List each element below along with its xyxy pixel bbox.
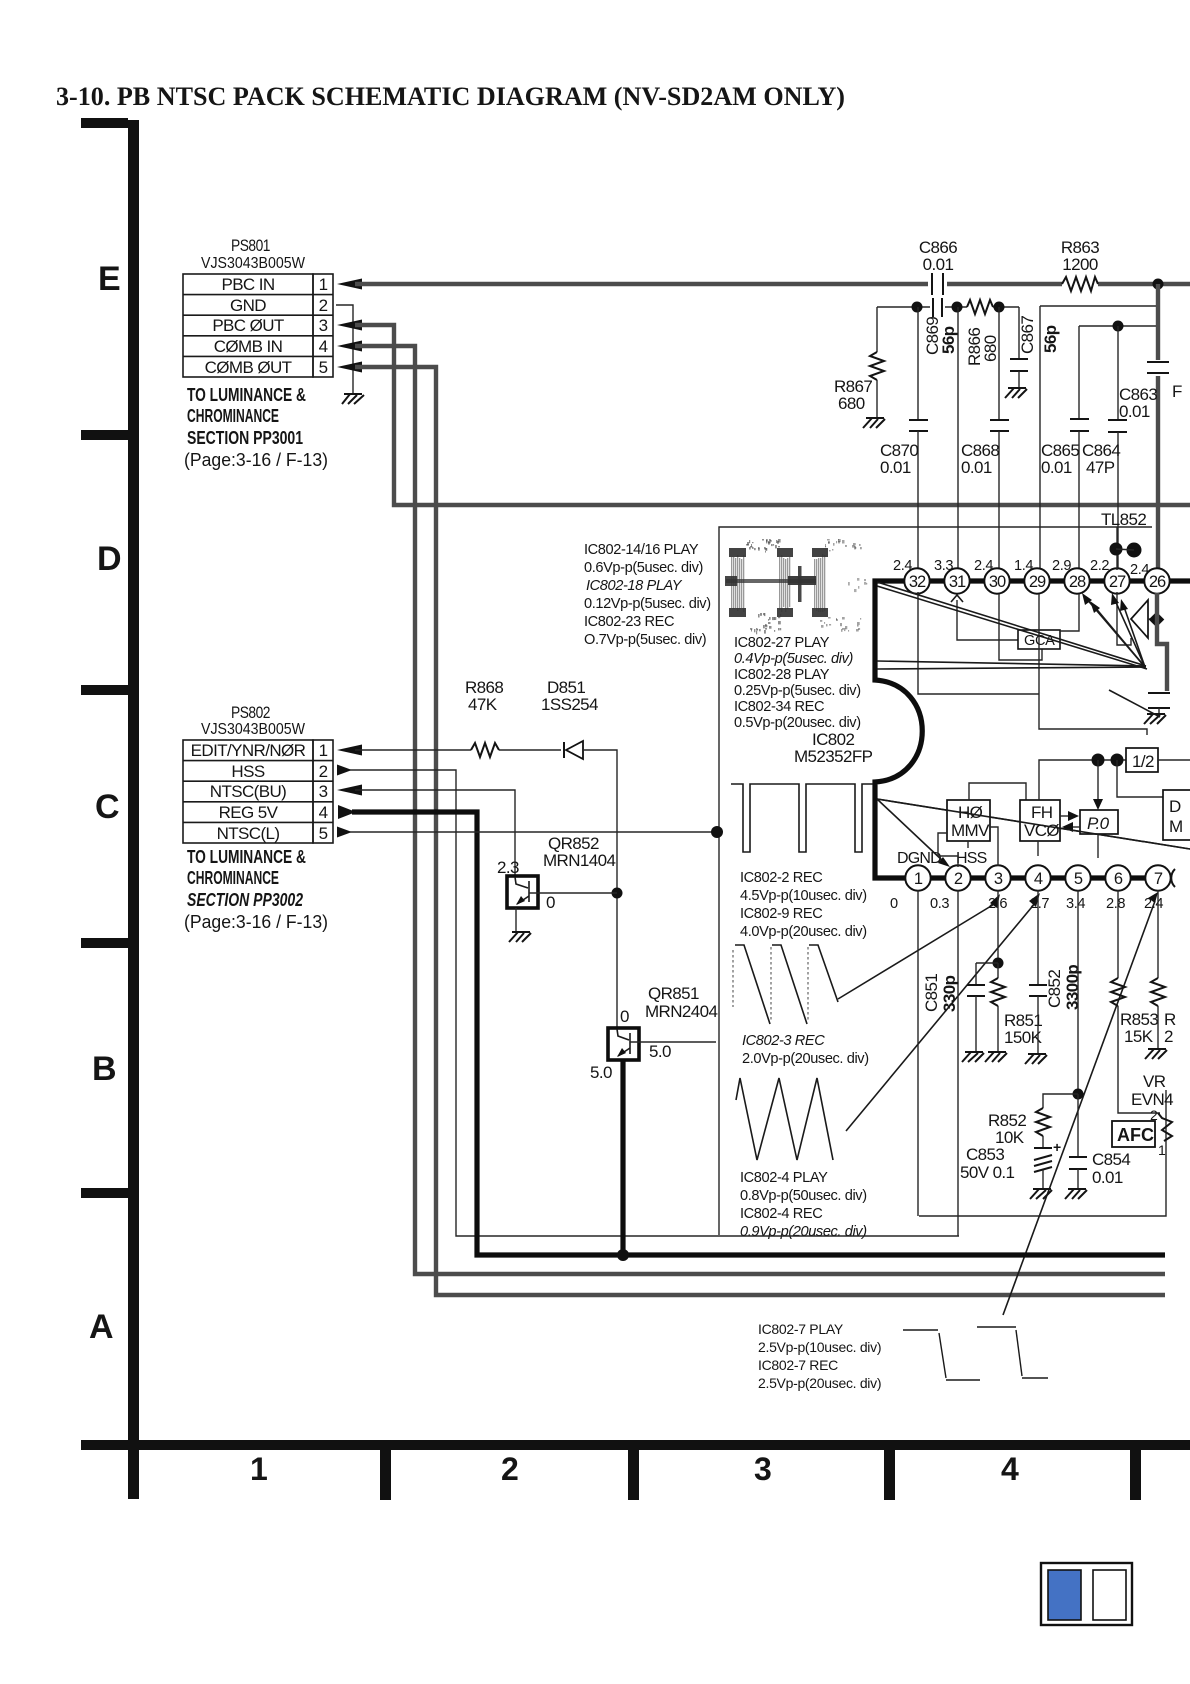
svg-text:5: 5 xyxy=(1074,870,1083,888)
callout line to pin 7 xyxy=(1003,901,1155,1315)
wire NTSC(BU) (PS802-3) xyxy=(337,785,362,796)
svg-text:PBC ØUT: PBC ØUT xyxy=(212,316,284,335)
buffer amp (pin 26/27) xyxy=(1117,592,1157,645)
wire DGND (pin 1 down) xyxy=(917,890,919,1216)
svg-text:0.01: 0.01 xyxy=(880,458,911,477)
pin 32 xyxy=(904,568,929,593)
svg-text:0.5Vp-p(20usec. div): 0.5Vp-p(20usec. div) xyxy=(734,715,861,731)
capacitor (pin 26 bypass) xyxy=(1148,693,1170,716)
svg-text:E: E xyxy=(98,260,121,298)
svg-text:2: 2 xyxy=(319,762,328,781)
svg-text:(Page:3-16 / F-13): (Page:3-16 / F-13) xyxy=(184,912,328,932)
svg-text:5.0: 5.0 xyxy=(590,1063,612,1082)
top pin voltage values xyxy=(893,558,1149,578)
wire HSS (PS802-2) xyxy=(337,765,352,776)
svg-text:2.5Vp-p(20usec. div): 2.5Vp-p(20usec. div) xyxy=(758,1375,881,1391)
svg-text:29: 29 xyxy=(1029,573,1046,591)
capacitor C870 xyxy=(880,307,928,570)
pin 29 xyxy=(1024,568,1049,593)
capacitor C865 xyxy=(1041,326,1089,570)
svg-text:4: 4 xyxy=(1034,870,1043,888)
svg-text:4.0Vp-p(20usec. div): 4.0Vp-p(20usec. div) xyxy=(740,924,867,940)
svg-text:HSS: HSS xyxy=(231,762,264,781)
svg-text:1: 1 xyxy=(319,741,328,760)
svg-text:680: 680 xyxy=(981,335,1000,362)
scope photo (burst waveform bitmap) xyxy=(725,539,867,634)
svg-text:0: 0 xyxy=(620,1007,629,1026)
svg-text:IC802-28 PLAY: IC802-28 PLAY xyxy=(734,667,830,683)
svg-text:0: 0 xyxy=(546,893,555,912)
svg-text:32: 32 xyxy=(909,573,926,591)
svg-text:0.01: 0.01 xyxy=(961,458,992,477)
svg-text:2: 2 xyxy=(501,1451,519,1487)
junction (pin 26 rail) xyxy=(1149,612,1165,628)
svg-text:C852: C852 xyxy=(1045,970,1064,1008)
diode D851 1SS254 xyxy=(541,678,598,759)
svg-text:VJS3043B005W: VJS3043B005W xyxy=(201,721,305,738)
svg-text:0.25Vp-p(5usec. div): 0.25Vp-p(5usec. div) xyxy=(734,683,861,699)
bottom pin voltage values xyxy=(890,896,1163,912)
pin 28 xyxy=(1064,568,1089,593)
ground (C867) xyxy=(1005,388,1027,398)
arrow from notch to pin 2 xyxy=(877,799,950,867)
pin 2 xyxy=(945,865,970,890)
ground (C852) xyxy=(1025,1054,1047,1064)
svg-text:2.4: 2.4 xyxy=(974,558,993,574)
svg-text:0.12Vp-p(5usec. div): 0.12Vp-p(5usec. div) xyxy=(584,596,711,612)
pin 30 xyxy=(984,568,1009,593)
svg-text:47P: 47P xyxy=(1086,458,1115,477)
ground (R867) xyxy=(863,418,885,428)
box P.0 (phase det) xyxy=(1060,810,1118,834)
capacitor C867 (56p to gnd) xyxy=(1010,307,1060,389)
note: to luminance & chrominance section PP3001 xyxy=(184,385,328,470)
pin 3 xyxy=(985,865,1010,890)
svg-text:O.7Vp-p(5usec. div): O.7Vp-p(5usec. div) xyxy=(584,632,706,648)
svg-text:1: 1 xyxy=(250,1451,268,1487)
IC802 top pin row xyxy=(904,568,1169,593)
node line (y=326 C865/C864) xyxy=(1079,325,1158,327)
capacitor C851 330p xyxy=(922,963,985,1053)
junction dots on filter net xyxy=(912,302,923,313)
svg-text:HSS: HSS xyxy=(956,850,987,867)
svg-text:6: 6 xyxy=(1114,870,1123,888)
wire pin 4 down / capacitor C852 3300p xyxy=(1029,890,1082,1055)
svg-text:GND: GND xyxy=(230,296,266,315)
leader line over MMV/VCO boxes (notch to pin 9) xyxy=(877,799,1190,849)
border: left margin bar with ticks xyxy=(81,118,139,1450)
wire pin31 riser xyxy=(957,307,959,570)
box DL (cut at page edge) xyxy=(1163,790,1190,840)
svg-text:EDIT/YNR/NØR: EDIT/YNR/NØR xyxy=(191,741,306,760)
svg-text:2.8: 2.8 xyxy=(1106,896,1125,912)
ground (C853) xyxy=(1030,1189,1052,1199)
svg-text:3.3: 3.3 xyxy=(934,558,953,574)
svg-text:PS802: PS802 xyxy=(231,703,270,722)
svg-text:0.9Vp-p(20usec. div): 0.9Vp-p(20usec. div) xyxy=(740,1224,867,1240)
pin 27 xyxy=(1104,568,1129,593)
svg-text:0.4Vp-p(5usec. div): 0.4Vp-p(5usec. div) xyxy=(734,651,853,667)
capacitor C853 50V 0.1 (polarized) xyxy=(960,1139,1061,1190)
svg-text:5.0: 5.0 xyxy=(649,1042,671,1061)
waveform: square wave (pin 7) xyxy=(903,1327,1048,1380)
label IC802-14/16 block xyxy=(584,542,711,648)
svg-text:TO LUMINANCE &: TO LUMINANCE & xyxy=(187,847,306,867)
svg-text:4: 4 xyxy=(319,803,328,822)
svg-text:SECTION PP3001: SECTION PP3001 xyxy=(187,428,303,448)
svg-text:2: 2 xyxy=(954,870,963,888)
svg-text:IC802-27 PLAY: IC802-27 PLAY xyxy=(734,635,830,651)
svg-text:2.2: 2.2 xyxy=(1090,558,1109,574)
ground (C854) xyxy=(1065,1189,1087,1199)
svg-text:0.6Vp-p(5usec. div): 0.6Vp-p(5usec. div) xyxy=(584,560,703,576)
svg-text:2: 2 xyxy=(1164,1027,1173,1046)
svg-text:5: 5 xyxy=(319,824,328,843)
svg-text:1: 1 xyxy=(914,870,923,888)
pin 1 xyxy=(905,865,930,890)
svg-text:IC802-2 REC: IC802-2 REC xyxy=(740,870,822,886)
svg-text:QR851: QR851 xyxy=(648,984,699,1003)
svg-text:5: 5 xyxy=(319,358,328,377)
svg-text:150K: 150K xyxy=(1004,1028,1043,1047)
svg-text:VR: VR xyxy=(1143,1072,1166,1091)
capacitor C863 (series) xyxy=(1119,362,1169,421)
svg-text:1/2: 1/2 xyxy=(1132,752,1154,771)
svg-text:2.4: 2.4 xyxy=(893,558,912,574)
label IC802-27/28/34 block xyxy=(734,635,861,731)
transistor QR851 MRN2404 xyxy=(590,984,717,1255)
svg-text:0.01: 0.01 xyxy=(1041,458,1072,477)
label IC802-3 block xyxy=(742,1033,869,1067)
resistor R851 150K xyxy=(991,963,1043,1053)
junction dot (QR852 emitter node) xyxy=(612,888,623,899)
svg-text:NTSC(BU): NTSC(BU) xyxy=(210,782,286,801)
svg-text:0.3: 0.3 xyxy=(930,896,949,912)
wire stubs below MMV / VCO / P.0 xyxy=(968,834,1098,858)
svg-text:MRN1404: MRN1404 xyxy=(543,851,615,870)
bus riser (grey) with C863 xyxy=(1156,284,1160,360)
svg-text:IC802-18 PLAY: IC802-18 PLAY xyxy=(586,578,683,594)
wire pin 5 down xyxy=(1077,890,1079,1094)
wire COMB OUT (PS801-5) xyxy=(337,362,362,373)
svg-text:1: 1 xyxy=(319,275,328,294)
pin 7 xyxy=(1145,865,1170,890)
svg-text:7: 7 xyxy=(1154,870,1163,888)
wire PBC OUT (PS801-3) xyxy=(337,320,362,331)
box GCA xyxy=(918,592,1147,735)
svg-text:3: 3 xyxy=(754,1451,772,1487)
transistor QR852 MRN1404 xyxy=(497,834,617,933)
svg-text:2: 2 xyxy=(319,296,328,315)
connector PS801 xyxy=(183,236,333,377)
svg-text:0.8Vp-p(50usec. div): 0.8Vp-p(50usec. div) xyxy=(740,1188,867,1204)
wire GND (PS801-2) to ground xyxy=(336,305,353,394)
pin 6 xyxy=(1105,865,1130,890)
svg-text:CØMB IN: CØMB IN xyxy=(214,337,283,356)
svg-text:15K: 15K xyxy=(1124,1027,1154,1046)
svg-text:1SS254: 1SS254 xyxy=(541,695,598,714)
wire PBC IN (PS801-1) xyxy=(337,279,362,290)
pin 4 xyxy=(1025,865,1050,890)
svg-text:2.3: 2.3 xyxy=(497,858,519,877)
box HO MMV xyxy=(938,783,1026,867)
wire REG 5V (PS802-4, +B) xyxy=(338,805,356,819)
svg-text:2.5Vp-p(10usec. div): 2.5Vp-p(10usec. div) xyxy=(758,1339,881,1355)
svg-text:0.01: 0.01 xyxy=(1119,402,1150,421)
ground (pin 26 bypass) xyxy=(1144,714,1166,724)
svg-text:SECTION PP3002: SECTION PP3002 xyxy=(187,890,303,910)
box FH VCO xyxy=(1020,800,1060,841)
module TL852 boundary xyxy=(719,527,1166,1235)
svg-text:30: 30 xyxy=(989,573,1006,591)
svg-text:1: 1 xyxy=(1158,1142,1166,1158)
svg-text:2.9: 2.9 xyxy=(1052,558,1071,574)
wire COMB IN (PS801-4) xyxy=(337,341,362,352)
capacitor C868 xyxy=(961,307,1009,570)
revision marker squares xyxy=(1041,1563,1132,1625)
svg-text:+: + xyxy=(1053,1139,1061,1155)
svg-text:REG 5V: REG 5V xyxy=(219,803,279,822)
svg-text:31: 31 xyxy=(949,573,966,591)
resistor R866 (series 680) xyxy=(965,300,1000,366)
junction dot at R863 / vertical bus xyxy=(1153,279,1164,290)
svg-text:CØMB ØUT: CØMB ØUT xyxy=(205,358,292,377)
junction dot (QR851 to +B rail) xyxy=(617,1249,629,1261)
IC802 M52352FP outline xyxy=(875,581,1190,878)
svg-text:F: F xyxy=(1172,382,1182,401)
svg-text:D: D xyxy=(1169,797,1181,816)
svg-text:M52352FP: M52352FP xyxy=(794,747,873,766)
resistor R852 10K xyxy=(988,1094,1078,1148)
svg-text:CHROMINANCE: CHROMINANCE xyxy=(187,406,279,426)
ground (QR852) xyxy=(509,932,531,942)
svg-text:CHROMINANCE: CHROMINANCE xyxy=(187,868,279,888)
svg-text:3: 3 xyxy=(319,316,328,335)
capacitor C854 0.01 xyxy=(1069,1094,1130,1190)
label IC802-2/9 block xyxy=(740,870,867,940)
svg-text:IC802-14/16 PLAY: IC802-14/16 PLAY xyxy=(584,542,699,558)
wire pin29 riser xyxy=(1039,306,1041,570)
svg-text:1200: 1200 xyxy=(1062,255,1098,274)
waveform: triangle (pin 4) xyxy=(736,1078,833,1160)
svg-text:27: 27 xyxy=(1109,573,1126,591)
callout line to pin 3 xyxy=(838,903,996,999)
svg-text:IC802-34 REC: IC802-34 REC xyxy=(734,699,824,715)
svg-text:IC802-7 REC: IC802-7 REC xyxy=(758,1357,838,1373)
box AFC xyxy=(1112,1121,1155,1147)
svg-text:PBC IN: PBC IN xyxy=(221,275,274,294)
node dots below TL852 (pins 26/27 net) xyxy=(1110,527,1142,570)
svg-text:FH: FH xyxy=(1031,803,1052,822)
svg-text:MMV: MMV xyxy=(951,821,990,840)
svg-text:4: 4 xyxy=(1001,1451,1019,1487)
svg-text:2.0Vp-p(20usec. div): 2.0Vp-p(20usec. div) xyxy=(742,1051,869,1067)
svg-text:(Page:3-16 / F-13): (Page:3-16 / F-13) xyxy=(184,450,328,470)
capacitor C866 (series) xyxy=(919,238,957,295)
svg-text:50V 0.1: 50V 0.1 xyxy=(960,1163,1015,1182)
svg-text:1.4: 1.4 xyxy=(1014,558,1033,574)
svg-text:47K: 47K xyxy=(468,695,498,714)
svg-text:TL852: TL852 xyxy=(1101,510,1146,529)
connector PS802 xyxy=(183,703,333,843)
node line (filter net, y=307) xyxy=(877,306,1019,308)
node line (y=306 right section) xyxy=(1040,305,1158,307)
svg-text:NTSC(L): NTSC(L) xyxy=(217,824,280,843)
wire pin 7 down / resistor R854 xyxy=(1151,890,1176,1050)
pin 31 xyxy=(944,568,969,593)
wire pin 26 down to bypass cap xyxy=(1157,593,1167,691)
svg-text:330p: 330p xyxy=(940,975,959,1012)
svg-text:4.5Vp-p(10usec. div): 4.5Vp-p(10usec. div) xyxy=(740,888,867,904)
label IC802-7 block xyxy=(758,1321,881,1391)
label IC802-4 block xyxy=(740,1170,867,1240)
box 1/2 (divider) xyxy=(1039,748,1190,810)
callout leaders (IC802-27/28 labels to pins) xyxy=(877,582,1147,669)
svg-text:C854: C854 xyxy=(1092,1150,1130,1169)
leader line to grounds right xyxy=(1109,690,1160,717)
pin 8 (partial at page edge) xyxy=(1171,869,1175,887)
svg-text:28: 28 xyxy=(1069,573,1086,591)
border: bottom axis with ticks xyxy=(81,1440,1190,1500)
svg-text:AFC: AFC xyxy=(1117,1125,1154,1145)
svg-text:IC802-4 PLAY: IC802-4 PLAY xyxy=(740,1170,828,1186)
callout arrows to pins 27/28 xyxy=(1082,593,1145,667)
svg-text:M: M xyxy=(1169,817,1183,836)
svg-text:2.4: 2.4 xyxy=(1130,562,1149,578)
ground (R854) xyxy=(1145,1049,1167,1059)
svg-text:IC802-4 REC: IC802-4 REC xyxy=(740,1206,822,1222)
svg-text:MRN2404: MRN2404 xyxy=(645,1002,717,1021)
svg-text:P.0: P.0 xyxy=(1087,814,1110,833)
svg-text:26: 26 xyxy=(1149,573,1166,591)
svg-text:IC802-23 REC: IC802-23 REC xyxy=(584,614,674,630)
ground (PS801-2) xyxy=(342,394,364,404)
svg-text:56p: 56p xyxy=(939,326,958,354)
svg-text:3300p: 3300p xyxy=(1063,965,1082,1010)
resistor R863 (series) xyxy=(1061,238,1099,291)
svg-text:C851: C851 xyxy=(922,974,941,1012)
wire pin 6 down / resistor R853 15K xyxy=(1111,890,1160,1113)
resistor R868 xyxy=(465,678,503,757)
potentiometer VR EVN4 (cut at page edge) xyxy=(1131,1072,1173,1158)
note: to luminance & chrominance section PP3002 xyxy=(184,847,328,932)
callout line to pin 4 xyxy=(846,902,1036,1131)
svg-text:IC802-7 PLAY: IC802-7 PLAY xyxy=(758,1321,844,1337)
ground (R851) xyxy=(985,1052,1007,1062)
wire pin 3 down to C851/R851 node xyxy=(997,890,999,963)
capacitor C864 xyxy=(1082,326,1127,570)
waveform: head switching pulses xyxy=(731,784,873,852)
svg-text:TO LUMINANCE &: TO LUMINANCE & xyxy=(187,385,306,405)
leader line (notch to pin 9, off page) xyxy=(877,799,1190,849)
svg-text:0: 0 xyxy=(890,896,898,912)
capacitor C869 (series 56p) xyxy=(923,298,958,355)
svg-text:0.01: 0.01 xyxy=(923,255,954,274)
svg-text:680: 680 xyxy=(838,394,865,413)
svg-text:56p: 56p xyxy=(1041,325,1060,353)
svg-text:B: B xyxy=(92,1050,117,1088)
pin 26 xyxy=(1144,568,1169,593)
svg-text:C853: C853 xyxy=(966,1145,1004,1164)
svg-text:3: 3 xyxy=(319,782,328,801)
svg-text:D: D xyxy=(97,540,122,578)
svg-text:3: 3 xyxy=(994,870,1003,888)
IC802 bottom pin row xyxy=(905,865,1175,890)
pin 5 xyxy=(1065,865,1090,890)
svg-text:VJS3043B005W: VJS3043B005W xyxy=(201,255,305,272)
svg-text:C: C xyxy=(95,788,120,826)
svg-text:IC802-9 REC: IC802-9 REC xyxy=(740,906,822,922)
wire HSS (pin 2 down) xyxy=(957,890,959,1236)
svg-text:PS801: PS801 xyxy=(231,236,270,255)
wire EDIT/YNR/NOR (PS802-1) xyxy=(337,745,362,756)
wire NTSC(L) (PS802-5) xyxy=(337,827,352,838)
ground (C851) xyxy=(962,1052,984,1062)
svg-text:C867: C867 xyxy=(1018,316,1037,354)
svg-text:A: A xyxy=(89,1308,114,1346)
resistor R867 xyxy=(834,307,884,419)
waveform: sawtooth (pin 3) xyxy=(733,945,838,1024)
svg-text:0.01: 0.01 xyxy=(1092,1168,1123,1187)
svg-text:3-10. PB NTSC PACK SCHEMATIC D: 3-10. PB NTSC PACK SCHEMATIC DIAGRAM (NV… xyxy=(56,82,845,111)
svg-text:IC802-3 REC: IC802-3 REC xyxy=(742,1033,825,1049)
svg-text:4: 4 xyxy=(319,337,328,356)
svg-text:3.4: 3.4 xyxy=(1066,896,1085,912)
junction dot (NTSC(L) at module edge) xyxy=(711,826,723,838)
